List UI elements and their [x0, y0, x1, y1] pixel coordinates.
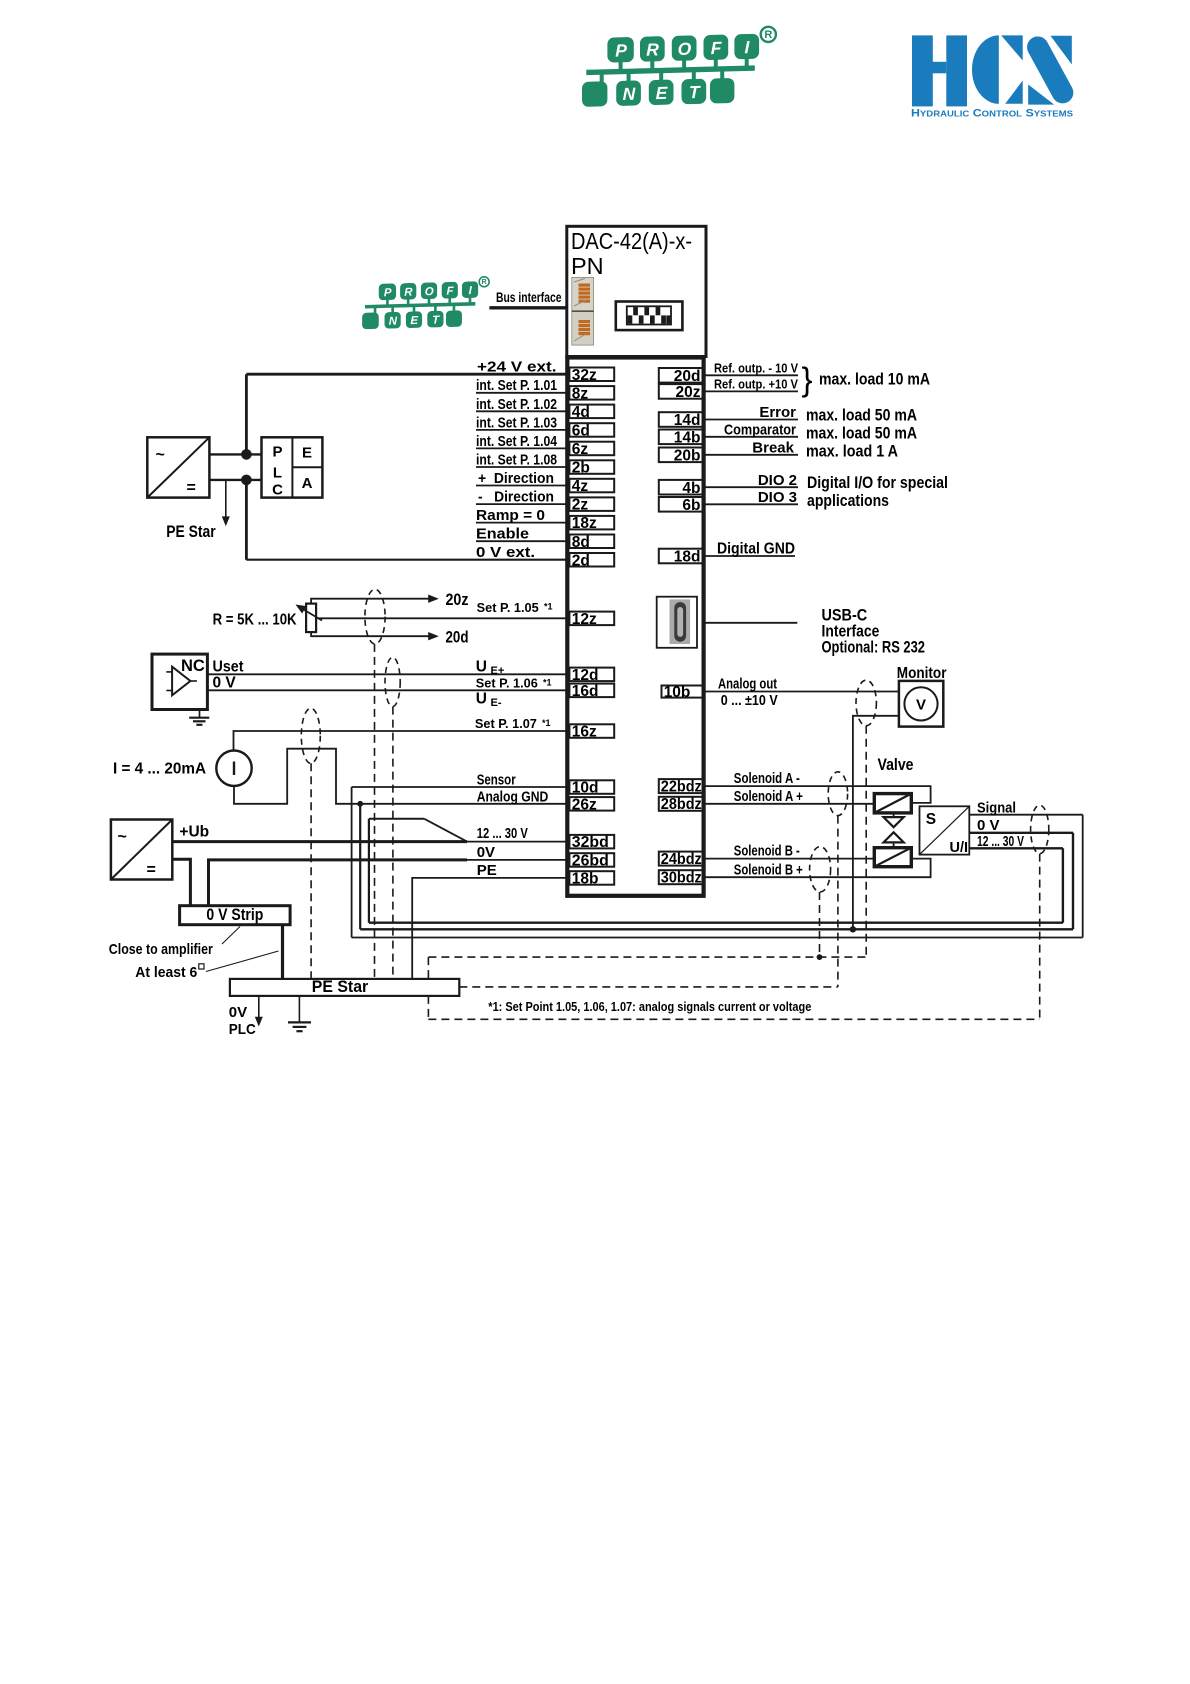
wire pot wiper to 12z — [318, 617, 570, 619]
pin 10d — [569, 780, 614, 794]
wire PSU2 0V stub — [172, 859, 190, 905]
node dot shield junction — [817, 954, 823, 960]
svg-text:+24 V ext.: +24 V ext. — [477, 359, 557, 376]
wire current source to Analog GND with hop — [234, 749, 569, 804]
svg-text:Bus interface: Bus interface — [496, 290, 562, 305]
node dot PLC 0V — [241, 475, 252, 486]
svg-text:4d: 4d — [572, 404, 590, 421]
svg-text:U: U — [476, 691, 487, 708]
svg-text:PN: PN — [571, 253, 604, 279]
svg-text:Close to amplifier: Close to amplifier — [109, 941, 213, 958]
left column labels — [476, 359, 558, 562]
svg-text:~: ~ — [156, 447, 165, 464]
wire loop bottom analog-gnd/0V — [360, 928, 1073, 930]
shield ellipse solenoid B cable — [810, 847, 831, 892]
svg-text:int. Set P. 1.04: int. Set P. 1.04 — [476, 433, 558, 450]
wire 12-30V top horizontal — [369, 818, 424, 820]
wire +24 V ext. — [246, 373, 569, 376]
wire Set P 1.07 to 16z — [234, 731, 570, 750]
svg-text:Set P. 1.06: Set P. 1.06 — [476, 677, 538, 691]
svg-text:16z: 16z — [572, 724, 597, 741]
pin 10b — [662, 686, 704, 698]
amplifier block body box — [567, 358, 703, 896]
svg-text:R = 5K ... 10K: R = 5K ... 10K — [213, 612, 298, 629]
pin 20z — [659, 384, 704, 399]
svg-text:12 ... 30 V: 12 ... 30 V — [477, 825, 528, 842]
wire 0V loop vertical right — [1072, 833, 1074, 930]
wire 12-30V slant to +Ub — [424, 819, 467, 842]
svg-text:Ramp = 0: Ramp = 0 — [476, 507, 545, 524]
svg-text:*1: Set Point 1.05, 1.06, 1.07: *1: Set Point 1.05, 1.06, 1.07: analog s… — [488, 1000, 811, 1014]
svg-text:U: U — [476, 658, 487, 675]
pin 2d — [569, 553, 614, 567]
node dot analog gnd — [357, 801, 363, 807]
wire vertical 0V ext from PLC node — [245, 480, 248, 560]
ground symbol below PE star — [288, 996, 311, 1031]
shield route horizontal sensor to PE star — [428, 1018, 1039, 1020]
svg-text:PE Star: PE Star — [312, 978, 369, 996]
wire Digital GND — [704, 555, 796, 557]
power supply PSU1 (AC/DC) — [147, 437, 209, 497]
svg-text:20d: 20d — [674, 368, 701, 385]
svg-text:USB-C: USB-C — [822, 606, 868, 624]
potentiometer R — [306, 604, 316, 633]
pin 16d — [569, 684, 614, 698]
wire solenoid A- — [704, 786, 931, 803]
svg-text:max. load 1 A: max. load 1 A — [806, 443, 898, 461]
wire Uset to 12d — [207, 673, 569, 675]
H — [912, 35, 933, 106]
wire monitor return — [853, 716, 899, 930]
pin 24bdz — [659, 852, 704, 866]
bus interface wire — [489, 306, 566, 309]
svg-text:6z: 6z — [572, 441, 589, 458]
svg-text:DIO 3: DIO 3 — [758, 489, 797, 506]
svg-text:18d: 18d — [674, 549, 701, 566]
PE star bar — [230, 979, 459, 996]
svg-text:*1: *1 — [544, 602, 553, 612]
svg-text:NC: NC — [181, 657, 205, 675]
svg-text:Break: Break — [752, 439, 794, 456]
svg-text:Ref. outp. - 10 V: Ref. outp. - 10 V — [714, 360, 798, 375]
svg-text:2b: 2b — [572, 460, 590, 477]
pin 2b — [569, 460, 614, 474]
svg-text:Comparator: Comparator — [724, 421, 796, 438]
svg-text:Signal: Signal — [977, 799, 1016, 816]
wire label - Direction — [476, 503, 569, 505]
svg-text:Ref. outp. +10 V: Ref. outp. +10 V — [714, 376, 798, 391]
wire loop bottom 12-30V — [369, 922, 1063, 924]
svg-text:Uset: Uset — [213, 659, 244, 676]
svg-text:4z: 4z — [572, 478, 589, 495]
svg-text:A: A — [302, 475, 313, 492]
svg-text:S: S — [926, 811, 936, 828]
svg-text:Digital I/O for special: Digital I/O for special — [807, 474, 948, 492]
wire pot bottom to 20d arrow — [311, 632, 430, 636]
svg-text:Digital GND: Digital GND — [717, 541, 795, 558]
svg-text:6b: 6b — [682, 497, 700, 514]
pin 20b — [659, 448, 704, 463]
pin 18b — [569, 871, 614, 885]
svg-text:Sensor: Sensor — [477, 772, 516, 788]
wire Sensor to 10d — [352, 786, 570, 788]
USB-C connector icon — [657, 597, 697, 648]
svg-text:0 V: 0 V — [977, 817, 1000, 834]
pin 14b — [659, 430, 704, 445]
HCS logo (top right) — [911, 35, 1074, 119]
pin 26z — [569, 797, 614, 811]
valve arrows between solenoids — [893, 813, 895, 817]
pin 22bdz — [659, 779, 704, 793]
svg-text:=: = — [187, 480, 196, 497]
wire PSU1 to PLC top — [209, 453, 261, 455]
PE Star arrow (upper) — [225, 480, 227, 518]
wire USB-C — [704, 622, 798, 624]
power supply PSU2 (AC/DC) — [111, 820, 172, 880]
pin 6d — [569, 423, 614, 437]
shield drain current-source cable — [310, 763, 312, 979]
pin 6z — [569, 442, 614, 456]
svg-text:- Direction: - Direction — [478, 489, 554, 506]
svg-text:}: } — [802, 361, 813, 398]
wire 0 V ext. — [246, 559, 569, 561]
current source I — [216, 751, 251, 786]
pin 4z — [569, 479, 614, 493]
node dot PLC +24V — [241, 449, 252, 460]
wire label Ramp = 0 — [476, 522, 569, 524]
pin 8d — [569, 535, 614, 549]
shield ellipse sensor cable — [1031, 805, 1049, 853]
wire label Enable — [476, 540, 569, 542]
svg-text:+ Direction: + Direction — [478, 470, 554, 487]
svg-text:8z: 8z — [572, 385, 589, 402]
wire +Ub thick — [172, 840, 467, 843]
svg-text:10d: 10d — [572, 780, 599, 797]
svg-text:0V: 0V — [229, 1004, 247, 1021]
svg-text:R: R — [764, 29, 772, 41]
PROFINET logo (large, top center) — [582, 27, 776, 107]
wire DIO 3 — [704, 503, 799, 505]
solenoid B coil — [874, 848, 911, 867]
svg-text:E+: E+ — [491, 665, 505, 677]
pin 32bd — [569, 835, 614, 849]
wire +Ub thin into 32bd — [467, 841, 569, 843]
ground under NC box — [189, 710, 209, 725]
wire 12-30V loop vertical left — [368, 819, 370, 923]
0 V strip bar — [180, 906, 291, 925]
svg-text:Solenoid A +: Solenoid A + — [734, 789, 803, 805]
svg-text:20z: 20z — [676, 384, 701, 401]
S — [1051, 36, 1072, 65]
svg-text:I = 4 ... 20mA: I = 4 ... 20mA — [113, 760, 206, 777]
shield drain uset cable — [392, 707, 394, 979]
DIP switch S1 — [616, 302, 683, 331]
svg-text:20z: 20z — [446, 591, 469, 609]
small PROFINET logo (bus interface) — [362, 277, 489, 329]
pin 14d — [659, 412, 704, 427]
svg-text:12d: 12d — [572, 667, 599, 684]
svg-text:DAC-42(A)-x-: DAC-42(A)-x- — [571, 228, 692, 254]
arrowhead 20z — [428, 595, 439, 603]
wire 12-30V loop vertical right — [1062, 848, 1064, 922]
svg-text:U/I: U/I — [950, 840, 969, 856]
pin 20d — [659, 368, 704, 383]
svg-text:0 V Strip: 0 V Strip — [206, 906, 263, 924]
svg-text:Set P. 1.07: Set P. 1.07 — [475, 717, 537, 731]
pin 12d — [569, 668, 614, 682]
svg-text:Solenoid A -: Solenoid A - — [734, 771, 800, 787]
svg-text:max. load 50 mA: max. load 50 mA — [806, 407, 917, 425]
svg-text:2d: 2d — [572, 552, 590, 569]
svg-text:Error: Error — [759, 404, 796, 421]
amplifier block header box U1 — [567, 226, 706, 356]
svg-text:DIO 2: DIO 2 — [758, 472, 797, 489]
svg-text:0 ... ±10 V: 0 ... ±10 V — [721, 693, 778, 709]
svg-text:E: E — [302, 445, 312, 462]
pin 18z — [569, 516, 614, 530]
shield drain solenoid B cable — [819, 892, 821, 957]
svg-text:6d: 6d — [572, 423, 590, 440]
svg-text:int. Set P. 1.02: int. Set P. 1.02 — [476, 396, 557, 413]
svg-text:P: P — [272, 443, 282, 460]
svg-text:max. load 50 mA: max. load 50 mA — [806, 425, 917, 443]
svg-text:26bd: 26bd — [572, 853, 609, 870]
svg-text:10b: 10b — [664, 684, 691, 701]
shield route horizontal to PE star (monitor/solenoid B) — [428, 956, 866, 958]
shield ellipse pot cable — [365, 589, 385, 644]
svg-text:24bdz: 24bdz — [661, 851, 702, 868]
svg-text:int. Set P. 1.01: int. Set P. 1.01 — [476, 377, 557, 394]
callout line close-to-amplifier — [222, 927, 240, 945]
wire 0V thin into 26bd — [467, 859, 569, 861]
wire label int. Set P. 1.03 — [476, 429, 569, 431]
pin 6b — [659, 497, 704, 512]
wire Ref. outp. +10V — [704, 390, 799, 392]
svg-text:int. Set P. 1.03: int. Set P. 1.03 — [476, 414, 557, 431]
svg-text:+Ub: +Ub — [179, 823, 209, 840]
svg-text:PE: PE — [477, 862, 497, 879]
svg-text:18b: 18b — [572, 871, 599, 888]
arrowhead 20d — [428, 632, 439, 640]
right column labels — [714, 360, 798, 391]
svg-text:HYDRAULIC CONTROL SYSTEMS: HYDRAULIC CONTROL SYSTEMS — [911, 108, 1074, 120]
node dot monitor return on loop — [850, 926, 856, 932]
shield ellipse solenoid A cable — [828, 772, 847, 816]
RJ45 bus connector photos — [572, 277, 594, 345]
svg-text:18z: 18z — [572, 515, 597, 532]
svg-text:*1: *1 — [543, 677, 552, 687]
wire solenoid A+ — [704, 803, 875, 805]
wire loop bottom sensor/signal — [352, 937, 1083, 939]
svg-text:32z: 32z — [572, 367, 597, 384]
pin 32z — [569, 368, 614, 382]
wire pot top to 20z arrow — [311, 599, 430, 604]
wire Analog out to monitor — [704, 691, 899, 693]
svg-text:20d: 20d — [446, 628, 469, 646]
svg-text:Analog GND: Analog GND — [477, 789, 549, 805]
svg-text:*1: *1 — [542, 718, 551, 728]
wire Ref. outp. -10V — [704, 374, 799, 376]
svg-text:V: V — [916, 697, 926, 714]
shield route vertical at PE star — [427, 957, 429, 979]
wire label int. Set P. 1.02 — [476, 410, 569, 412]
shield drain sensor cable — [1039, 854, 1041, 1020]
monitor voltmeter box — [899, 681, 943, 727]
pin 18d — [659, 549, 704, 564]
wire signal loop vertical right — [1082, 815, 1084, 938]
svg-text:applications: applications — [807, 492, 889, 510]
svg-text:Solenoid B +: Solenoid B + — [734, 862, 803, 878]
solenoid A coil — [874, 794, 911, 813]
wire PSU1 to PLC bottom — [209, 479, 261, 481]
svg-text:0 V ext.: 0 V ext. — [476, 544, 535, 561]
wire 0 V to 16d — [207, 689, 569, 691]
wire Error — [704, 419, 799, 421]
shield drain solenoid A cable — [837, 816, 839, 987]
pot wiper arrow — [301, 608, 322, 621]
svg-text:Valve: Valve — [878, 755, 914, 774]
wire 0V strip to PE star — [281, 925, 284, 979]
svg-text:14d: 14d — [674, 412, 701, 429]
pin 8z — [569, 386, 614, 400]
svg-text:Solenoid B -: Solenoid B - — [734, 844, 800, 860]
wire label int. Set P. 1.04 — [476, 447, 569, 449]
svg-text:Optional: RS 232: Optional: RS 232 — [822, 639, 926, 657]
callout line at-least-6 — [206, 951, 279, 972]
svg-text:At least 6: At least 6 — [135, 964, 197, 981]
svg-text:Monitor: Monitor — [897, 665, 947, 682]
pin 12z — [569, 612, 614, 626]
pin 16z — [569, 724, 614, 738]
wire sensor 12-30V — [969, 847, 1063, 849]
pin 26bd — [569, 853, 614, 867]
wire label + Direction — [476, 485, 569, 487]
svg-text:14b: 14b — [674, 429, 701, 446]
svg-text:C: C — [272, 481, 283, 498]
svg-text:Analog out: Analog out — [718, 677, 777, 693]
shield ellipse uset cable — [385, 657, 400, 706]
C — [972, 35, 999, 103]
svg-text:R: R — [482, 277, 488, 286]
svg-text:16d: 16d — [572, 683, 599, 700]
svg-text:8d: 8d — [572, 534, 590, 551]
pin 28bdz — [659, 797, 704, 811]
shield route horizontal solenoid A to PE star — [459, 986, 838, 988]
svg-text:2z: 2z — [572, 497, 589, 514]
wire solenoid B- — [704, 858, 875, 860]
wire signal — [969, 814, 1082, 816]
svg-text:max. load 10 mA: max. load 10 mA — [819, 371, 930, 389]
shield ellipse monitor cable — [856, 680, 876, 726]
wire solenoid B+ — [704, 859, 931, 878]
svg-text:Set P. 1.05: Set P. 1.05 — [477, 601, 539, 615]
wire sensor 0V — [969, 832, 1073, 834]
svg-text:int. Set P. 1.08: int. Set P. 1.08 — [476, 451, 557, 468]
svg-text:32bd: 32bd — [572, 834, 609, 851]
svg-text:12 ... 30 V: 12 ... 30 V — [977, 833, 1024, 850]
svg-text:E-: E- — [491, 697, 502, 709]
svg-text:26z: 26z — [572, 796, 597, 813]
svg-text:0V: 0V — [477, 844, 495, 861]
svg-text:30bdz: 30bdz — [661, 869, 702, 886]
shield ellipse current-source cable — [301, 708, 320, 763]
svg-text:PE Star: PE Star — [166, 523, 216, 541]
wire analog-gnd loop vertical left — [359, 804, 361, 930]
setpoint source NC box — [152, 654, 207, 709]
svg-text:20b: 20b — [674, 447, 701, 464]
pin 30bdz — [659, 870, 704, 884]
wire label int. Set P. 1.01 — [476, 392, 569, 394]
wire sensor loop vertical left — [351, 787, 353, 938]
pin 4b — [659, 480, 704, 495]
svg-text:=: = — [147, 862, 156, 879]
shield drain monitor cable — [865, 726, 867, 957]
svg-text:12z: 12z — [572, 611, 597, 628]
wire Comparator — [704, 436, 799, 438]
wire label int. Set P. 1.08 — [476, 466, 569, 468]
pin 2z — [569, 497, 614, 511]
wire PE to 18b — [412, 878, 569, 979]
svg-text:22bdz: 22bdz — [661, 778, 702, 795]
svg-text:4b: 4b — [682, 480, 700, 497]
svg-text:PLC: PLC — [229, 1021, 256, 1038]
pin 4d — [569, 405, 614, 419]
svg-text:~: ~ — [118, 829, 127, 846]
svg-text:28bdz: 28bdz — [661, 796, 702, 813]
sensor U/I converter box — [920, 806, 970, 854]
svg-text:0 V: 0 V — [213, 675, 237, 692]
PLC box — [262, 437, 323, 497]
svg-text:Enable: Enable — [476, 526, 529, 543]
0V PLC arrow below PE star — [258, 996, 260, 1019]
svg-text:L: L — [273, 465, 282, 482]
wire vertical +24V to PLC node — [245, 374, 248, 454]
wire DIO 2 — [704, 486, 799, 488]
shield drain pot cable — [374, 644, 376, 979]
wire 0V strip to 26bd thick — [209, 860, 468, 906]
wire Break — [704, 454, 799, 456]
